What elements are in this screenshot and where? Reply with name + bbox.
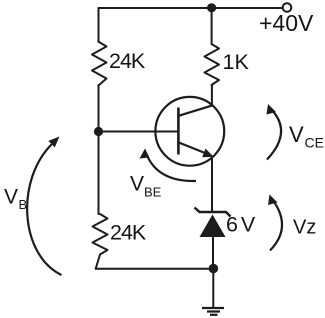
transistor Q1 collector lead [179,105,213,115]
arrow arc VBE [146,153,196,181]
resistor R1 24K [92,42,107,85]
terminal +40V open circle [283,3,292,12]
arrow arc VCE [267,109,281,160]
zener diode D1 triangle [200,215,226,238]
svg-text:+40V: +40V [259,10,314,36]
node dot bottom rail [209,264,219,274]
transistor Q1 base bar [177,108,180,155]
svg-text:6 V: 6 V [226,213,256,237]
arrow arc VB [27,144,61,276]
arrow arc Vz [270,199,282,251]
svg-text:V: V [4,186,18,209]
wire collector drop [211,85,213,105]
wire left rail top [98,8,100,42]
wire zener to bottom node [212,237,214,269]
wire emitter drop to zener [211,157,213,211]
ground symbol [202,308,224,315]
transistor Q1 emitter arrowhead [202,149,213,158]
svg-text:CE: CE [305,135,324,151]
svg-text:24K: 24K [109,49,146,73]
wire left rail bottom [96,255,100,269]
wire left rail middle [98,85,100,214]
wire right rail top [211,8,213,44]
resistor R2 24K [93,214,108,255]
svg-text:V: V [289,122,304,147]
svg-text:Vz: Vz [293,217,316,239]
svg-text:24K: 24K [110,221,147,245]
transistor Q1 body circle [155,97,224,166]
svg-text:B: B [19,197,28,212]
svg-text:V: V [130,173,144,196]
wire top rail [99,7,283,9]
svg-text:BE: BE [144,185,162,200]
wire ground stem [212,269,214,308]
node dot top rail [207,3,216,12]
wire bottom rail [96,268,214,270]
transistor Q1 emitter lead [179,143,205,154]
node dot base [94,127,103,136]
wire base lead [99,131,179,133]
zener diode D1 cathode bar [195,208,231,217]
svg-text:1K: 1K [223,50,250,74]
resistor R3 1K [205,44,220,85]
